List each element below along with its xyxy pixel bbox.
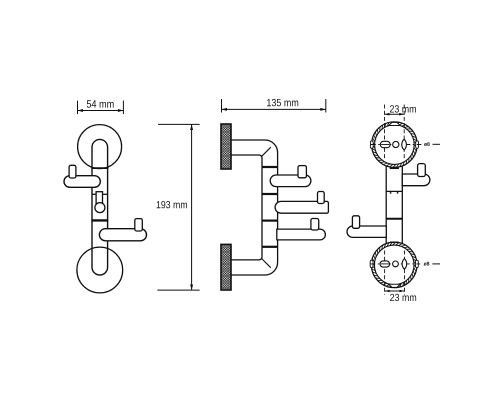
face view: bar joint dots [390, 192, 392, 194]
front view: central post (stadium outline) [92, 139, 108, 275]
face view: top circle right pole mark [416, 141, 419, 148]
front view: middle hook collar [96, 192, 102, 204]
side view: tube joint line 3 [262, 220, 278, 222]
face view: top circle left pole mark [370, 141, 373, 148]
dim 54mm: left tick [77, 101, 79, 115]
dim 193mm: bottom extension line [157, 289, 199, 291]
front view: top mount circle [78, 125, 122, 169]
face view: left hook tab [352, 216, 359, 229]
dim 193mm: top extension line [158, 123, 200, 125]
face view: bottom circle bottom seam tab [389, 284, 401, 287]
dim 54mm: line [78, 110, 124, 112]
front view: left hook knob tab [69, 165, 76, 178]
front view: collar joint tick line [92, 193, 108, 195]
face view: left hook [347, 226, 386, 237]
face view: bottom hole dashed line right [404, 251, 406, 295]
side view: tube joint line 1 [262, 166, 278, 168]
face view: bottom diameter label [424, 262, 430, 266]
face view: bottom circle left pole mark [370, 260, 373, 267]
face view: upper right hook [402, 174, 430, 186]
dim 135mm: label [267, 99, 298, 106]
front view: right hook arm [99, 229, 146, 241]
face view: top circle outer [372, 122, 418, 168]
face view: top hole dashed line left [384, 105, 386, 159]
face view: bottom circle knurl ring [372, 242, 417, 287]
face view: bottom lens hole [402, 259, 407, 270]
side view: tube joint line 2 [262, 193, 278, 195]
face view: bottom horizontal centre line [370, 263, 420, 265]
side view: middle hook tab [318, 192, 325, 204]
front view: bottom mount circle [77, 247, 123, 293]
face view: top circle bottom seam [390, 167, 399, 169]
side view: middle hook [275, 201, 328, 213]
face view: bottom slot hole [380, 261, 390, 267]
dim 23mm top: label [390, 105, 416, 112]
face view: top circle top seam tab [389, 122, 401, 125]
dim 193mm: vertical line [191, 124, 193, 290]
face view: bottom circle outer [371, 242, 417, 288]
face view: bottom hole dashed line left [384, 251, 386, 295]
dim 135mm: left tick [221, 99, 223, 113]
side view: top wall plate (hatched) [221, 124, 231, 169]
dim 193mm: label [157, 201, 187, 208]
side view: arm and tube outline [231, 140, 278, 275]
front view: left hook arm [64, 176, 100, 188]
face view: top centre hole [393, 141, 399, 147]
front view: right hook knob tab [135, 219, 143, 231]
dim 23mm bottom: label [390, 294, 416, 301]
face view: bottom circle inner [374, 245, 414, 285]
face view: bottom centre hole [393, 261, 399, 267]
face view: top lens hole [402, 139, 407, 150]
dim 54mm: right tick [122, 101, 124, 115]
face view: top horizontal centre line [371, 144, 422, 146]
front view: middle hook tip circle [95, 203, 105, 213]
dim 135mm: line [222, 108, 326, 110]
dim 23mm bottom: line [385, 290, 405, 292]
face view: top circle inner [375, 125, 415, 165]
face view: bottom circle right pole mark [416, 260, 419, 267]
front view: joint line below top circle [91, 167, 108, 169]
face view: bottom circle top seam [390, 241, 399, 243]
side view: tube joint line 4 [262, 246, 278, 248]
side view: top bend line [262, 147, 271, 156]
front view: thick joint line [91, 219, 108, 221]
face view: top hole dashed line right [403, 105, 405, 159]
side view: top hook [270, 175, 311, 187]
dim 23mm top: line [385, 113, 405, 115]
side view: bottom hook [277, 229, 326, 240]
face view: top slot hole [380, 141, 390, 147]
side view: bottom wall plate (hatched) [221, 244, 231, 290]
side view: top hook tab [298, 166, 306, 178]
dim 135mm: right tick [325, 99, 327, 113]
face view: top circle knurl ring [372, 122, 417, 167]
face view: upper right hook tab [418, 164, 426, 177]
face view: bar left edge [385, 166, 387, 243]
dim 54mm: label [87, 100, 114, 107]
side view: bottom bend line [262, 259, 271, 268]
side view: bottom hook tab [311, 219, 319, 231]
face view: bar joint lines [386, 190, 402, 192]
face view: bar right edge [401, 166, 403, 243]
face view: top diameter label [424, 142, 430, 146]
